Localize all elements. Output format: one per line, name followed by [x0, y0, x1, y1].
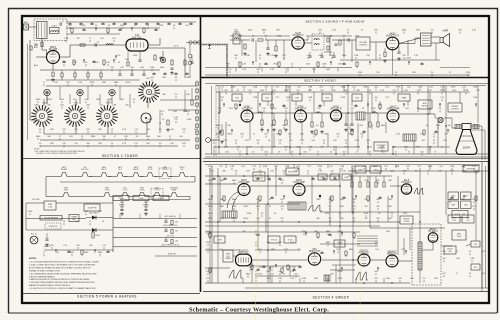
power component drops: [55, 250, 57, 253]
svg-text:1.2M: 1.2M: [450, 166, 455, 168]
svg-text:5%: 5%: [297, 90, 300, 92]
svg-text:+250 V AUDIO B+: +250 V AUDIO B+: [162, 224, 178, 227]
svg-text:.01: .01: [369, 90, 372, 92]
svg-text:.01: .01: [111, 129, 114, 131]
tube V201 6AU6 sound IF: [292, 32, 304, 49]
svg-text:L7: L7: [379, 55, 381, 57]
HV cage dashed box: [412, 224, 441, 285]
tuner upper component drops: [68, 24, 71, 25]
svg-text:560: 560: [234, 30, 237, 32]
svg-text:560: 560: [47, 105, 50, 107]
svg-text:SECTION 3 VIDEO: SECTION 3 VIDEO: [304, 79, 336, 83]
svg-text:.001: .001: [406, 166, 410, 168]
svg-text:.002: .002: [224, 90, 228, 92]
svg-text:1000: 1000: [248, 30, 252, 32]
svg-text:R461: R461: [451, 196, 455, 198]
svg-text:.001: .001: [280, 206, 284, 208]
svg-text:.05: .05: [261, 125, 264, 127]
svg-text:.01: .01: [111, 143, 114, 145]
AGC dot junction: [239, 104, 241, 106]
svg-text:L7: L7: [278, 152, 280, 154]
svg-text:47: 47: [361, 30, 363, 32]
svg-text:C12: C12: [252, 166, 256, 168]
svg-text:.005: .005: [359, 125, 363, 127]
svg-text:SYNC AMP: SYNC AMP: [293, 181, 305, 184]
wire top power: [26, 202, 44, 204]
svg-text:.047: .047: [428, 90, 432, 92]
height control box: [400, 216, 413, 224]
svg-text:.001: .001: [342, 152, 346, 154]
svg-text:.001: .001: [280, 180, 284, 182]
sound bottom bus drops: [235, 68, 237, 72]
svg-text:470K: 470K: [120, 25, 125, 27]
focus box: [471, 264, 480, 270]
svg-text:.005: .005: [108, 99, 112, 101]
svg-text:470K: 470K: [159, 25, 164, 27]
svg-text:1.2M: 1.2M: [112, 105, 117, 107]
svg-text:.01: .01: [63, 221, 66, 223]
waveform vertical sweep: [229, 270, 243, 278]
svg-text:L1 ANT: L1 ANT: [51, 25, 58, 28]
svg-text:.01: .01: [282, 267, 285, 269]
svg-text:470K: 470K: [325, 213, 330, 215]
svg-text:5%: 5%: [274, 213, 277, 215]
bottom rule under caption: [8, 312, 497, 314]
svg-text:1.2M: 1.2M: [308, 87, 313, 89]
phase det winding: [288, 202, 306, 210]
svg-text:VIDEO AMP: VIDEO AMP: [387, 107, 400, 110]
svg-text:1.2M: 1.2M: [418, 87, 423, 89]
svg-text:220: 220: [364, 180, 367, 182]
tuner mid component cluster: [62, 62, 65, 63]
svg-text:.05: .05: [431, 30, 434, 32]
svg-text:.001: .001: [264, 152, 268, 154]
svg-text:21EP4: 21EP4: [463, 147, 471, 150]
svg-text:2.2K: 2.2K: [290, 278, 295, 280]
tube V406 horizontal oscillator: [358, 250, 370, 266]
switch wafer S1A: [31, 105, 53, 127]
svg-text:R463: R463: [451, 205, 455, 207]
svg-text:2.2K: 2.2K: [78, 82, 83, 84]
tuner below mixer cluster: [115, 56, 117, 59]
svg-text:C12: C12: [275, 97, 279, 99]
svg-text:1.2M: 1.2M: [395, 166, 400, 168]
svg-text:C12: C12: [307, 166, 311, 168]
svg-text:PL1 47: PL1 47: [31, 234, 38, 236]
svg-text:2W: 2W: [77, 38, 80, 40]
svg-text:SECTION 5 POWER & HEATERS: SECTION 5 POWER & HEATERS: [77, 295, 137, 299]
svg-text:R302: R302: [258, 274, 263, 276]
svg-text:RF AMP: RF AMP: [49, 48, 58, 51]
svg-text:.05: .05: [371, 125, 374, 127]
svg-text:HOR OSC: HOR OSC: [359, 252, 370, 254]
dashed box around row2 filament: [151, 189, 163, 199]
svg-text:220: 220: [74, 143, 77, 145]
wafer interconnect wires: [43, 99, 45, 106]
sweep long vertical wires: [209, 168, 211, 283]
oscillator network small parts: [127, 62, 129, 66]
svg-text:.05: .05: [378, 213, 381, 215]
ion trap box: [471, 241, 480, 247]
svg-text:4.7K: 4.7K: [270, 69, 275, 71]
quad coil T202 (dashed): [312, 34, 324, 50]
volume control box: [356, 37, 370, 50]
section 3 box top line: [205, 83, 489, 85]
antenna matching assembly (dashed enclosure): [34, 19, 67, 41]
svg-text:AGC: AGC: [34, 64, 39, 67]
svg-text:470K: 470K: [90, 82, 95, 84]
svg-text:470K: 470K: [148, 119, 153, 121]
vertical riser V1 cathode: [52, 64, 54, 71]
svg-text:560: 560: [447, 125, 450, 127]
video junction dots: [218, 112, 220, 114]
svg-text:5%: 5%: [133, 99, 136, 101]
svg-text:100: 100: [175, 231, 178, 233]
section 1 bottom line: [22, 158, 200, 160]
svg-text:.05: .05: [229, 69, 232, 71]
on-off switch box: [84, 204, 100, 211]
sweep long bus wires: [205, 175, 340, 177]
svg-text:47: 47: [253, 134, 255, 136]
svg-text:HOR AFC: HOR AFC: [401, 181, 412, 184]
svg-text:6800: 6800: [36, 99, 40, 101]
wiring video IF chain: [253, 112, 295, 114]
misc small caps sound: [308, 56, 311, 57]
video component row lower: [218, 132, 221, 133]
svg-text:120: 120: [439, 166, 442, 168]
svg-text:C117: C117: [245, 140, 250, 142]
svg-text:S1A: S1A: [42, 102, 46, 105]
svg-text:C12: C12: [385, 87, 389, 89]
wires bottom sweep: [233, 255, 236, 257]
section 3 left dashed edge: [215, 85, 217, 156]
coupling capacitor C4: [95, 43, 96, 46]
svg-text:120: 120: [352, 87, 355, 89]
svg-text:6800: 6800: [114, 82, 118, 84]
svg-text:6800: 6800: [98, 252, 102, 254]
svg-text:SECTION 2 SOUND I-F AND AUDIO: SECTION 2 SOUND I-F AND AUDIO: [305, 20, 365, 24]
contrast control box: [374, 142, 388, 151]
tube V405 vertical output: [308, 249, 321, 265]
svg-text:C117: C117: [472, 206, 477, 208]
svg-text:1.2M: 1.2M: [308, 97, 313, 99]
sound top wire: [230, 35, 290, 37]
svg-text:T304: T304: [325, 97, 329, 99]
hor freq control box: [253, 172, 265, 181]
channel strip bus upper: [40, 69, 160, 71]
tuner upper wiring rows: [66, 21, 196, 23]
svg-text:.001: .001: [429, 87, 433, 89]
svg-text:5%: 5%: [175, 77, 178, 79]
svg-text:120: 120: [62, 129, 65, 131]
svg-text:470K: 470K: [231, 87, 236, 89]
de-emphasis network: [334, 44, 337, 45]
arc wires left of sync sep: [227, 192, 238, 208]
svg-text:.05: .05: [159, 129, 162, 131]
section 5 bottom line: [22, 293, 200, 295]
svg-text:560: 560: [130, 67, 133, 69]
svg-text:6800: 6800: [216, 125, 220, 127]
sweep junction dots: [217, 175, 219, 177]
tube V302 6CB6 2nd video IF: [295, 106, 307, 122]
svg-text:FUSE: FUSE: [48, 204, 52, 206]
svg-text:C464: C464: [464, 205, 468, 207]
AFC network box cluster: [448, 192, 459, 200]
svg-text:.01: .01: [63, 62, 66, 64]
svg-text:AT LEFT REALIGN OPERATIONS, AN: AT LEFT REALIGN OPERATIONS, AND THE CONT…: [29, 266, 91, 269]
tube V1 6BC5 RF amp: [47, 47, 60, 64]
svg-text:5%: 5%: [391, 213, 394, 215]
distribution risers: [119, 214, 121, 219]
antenna input terminal board: [24, 24, 29, 30]
svg-text:1.2M: 1.2M: [73, 105, 78, 107]
svg-text:R302: R302: [274, 64, 279, 66]
svg-text:5%: 5%: [439, 108, 442, 110]
svg-text:C12: C12: [385, 97, 389, 99]
line cord interlock dashed box: [45, 223, 61, 229]
vertical oscillator transformer: [223, 250, 233, 262]
svg-text:C12: C12: [275, 87, 279, 89]
svg-text:T303: T303: [295, 97, 299, 99]
svg-text:.005: .005: [318, 30, 322, 32]
svg-text:.001: .001: [481, 251, 485, 253]
filter section top boxes: [113, 196, 129, 201]
svg-text:.01: .01: [259, 55, 262, 57]
svg-text:VERT OUT: VERT OUT: [309, 251, 321, 253]
svg-text:.001: .001: [84, 211, 88, 213]
svg-text:47: 47: [299, 69, 301, 71]
phase detector network: [351, 182, 353, 187]
svg-text:.002: .002: [240, 134, 244, 136]
svg-text:4.7K: 4.7K: [122, 143, 127, 145]
svg-text:C117: C117: [401, 249, 406, 251]
svg-text:C117: C117: [284, 108, 289, 110]
svg-text:6800: 6800: [91, 136, 95, 138]
heater rows connecting wires: [45, 177, 47, 197]
svg-text:C117: C117: [330, 55, 335, 57]
svg-text:NORMAL PICTURE CONTRAST LEVEL.: NORMAL PICTURE CONTRAST LEVEL.: [29, 269, 61, 272]
svg-text:T302: T302: [265, 97, 269, 99]
svg-text:.01: .01: [323, 140, 326, 142]
vert output transformer winding: [324, 275, 330, 281]
CRT picture tube 21EP4: [456, 124, 477, 155]
sound takeoff coil T201: [233, 34, 240, 44]
tube V404 vertical oscillator: [236, 250, 252, 265]
svg-text:.002: .002: [106, 62, 110, 64]
svg-text:1000: 1000: [160, 67, 164, 69]
thermal resistor box: [69, 215, 79, 222]
svg-text:.05: .05: [136, 136, 139, 138]
svg-text:.001: .001: [303, 152, 307, 154]
svg-text:470K: 470K: [28, 211, 33, 213]
svg-text:5%: 5%: [39, 143, 42, 145]
waveform AFC comparison: [414, 188, 424, 194]
svg-text:6800: 6800: [326, 242, 330, 244]
svg-text:.047: .047: [170, 143, 174, 145]
svg-text:L7: L7: [317, 152, 319, 154]
tuner bottom bus: [40, 139, 190, 141]
svg-text:5. USE EXACT REPLACEMENT VALUE: 5. USE EXACT REPLACEMENT VALUES FOR ALL …: [29, 281, 95, 284]
svg-text:5%: 5%: [118, 55, 121, 57]
svg-text:.047: .047: [170, 129, 174, 131]
svg-text:47: 47: [57, 252, 59, 254]
divider feedthrough terminal squares: [196, 82, 199, 85]
svg-text:.05: .05: [291, 64, 294, 66]
svg-text:.002: .002: [99, 105, 103, 107]
svg-text:120: 120: [462, 87, 465, 89]
svg-text:3. ALL CAPACITANCE VALUES IN M: 3. ALL CAPACITANCE VALUES IN MFD UNLESS …: [29, 272, 97, 275]
svg-text:560: 560: [312, 69, 315, 71]
svg-text:470K: 470K: [358, 72, 363, 74]
left edge wires: [29, 40, 31, 120]
svg-text:390: 390: [222, 171, 225, 173]
svg-text:390: 390: [316, 218, 319, 220]
svg-text:.001: .001: [241, 166, 245, 168]
svg-text:L7: L7: [89, 38, 91, 40]
transformer T404 flyback winding: [418, 242, 422, 270]
IF output line to section 3: [148, 47, 185, 49]
svg-text:.01: .01: [291, 152, 294, 154]
tube V401 sync separator: [238, 180, 250, 196]
svg-text:6800: 6800: [349, 249, 353, 251]
svg-text:.005: .005: [173, 111, 177, 113]
svg-text:47: 47: [269, 218, 271, 220]
sweep component row lower: [209, 268, 211, 272]
svg-text:470K: 470K: [150, 67, 155, 69]
feedthrough terminals to section 2: [189, 41, 192, 44]
switch wafer S1B: [64, 105, 86, 127]
svg-text:4. ARROWS INDICATE CLOCKWISE R: 4. ARROWS INDICATE CLOCKWISE ROTATION OF…: [29, 278, 90, 281]
svg-text:5%: 5%: [235, 171, 238, 173]
svg-text:470K: 470K: [81, 25, 86, 27]
capacitor C12: [183, 110, 186, 111]
svg-text:.001: .001: [420, 152, 424, 154]
svg-text:100: 100: [175, 222, 178, 224]
svg-text:C117: C117: [206, 278, 211, 280]
svg-text:47: 47: [73, 99, 75, 101]
svg-text:SYNC: SYNC: [64, 190, 69, 192]
wire antenna to balun: [29, 26, 35, 28]
junction dot on cable: [209, 44, 211, 46]
tuner vertical drops to wafers: [46, 94, 48, 104]
oscillator adjust trimmer row wires: [46, 96, 48, 104]
svg-text:560: 560: [282, 125, 285, 127]
svg-text:.002: .002: [405, 108, 409, 110]
svg-text:120: 120: [336, 134, 339, 136]
deflection yoke combs: [455, 125, 461, 129]
svg-text:.05: .05: [417, 90, 420, 92]
svg-text:1.2M: 1.2M: [340, 166, 345, 168]
svg-text:1000: 1000: [84, 252, 88, 254]
sweep vertical mesh wires: [211, 166, 213, 283]
svg-text:4.7K: 4.7K: [122, 129, 127, 131]
sweep extra component drops: [212, 179, 215, 180]
feedthrough terminals column: [188, 54, 192, 58]
svg-text:.01: .01: [362, 108, 365, 110]
svg-text:+250V: +250V: [405, 58, 412, 60]
svg-text:.05: .05: [134, 25, 137, 27]
svg-text:470K: 470K: [263, 166, 268, 168]
svg-text:C12: C12: [472, 166, 476, 168]
sweep component row upper: [211, 196, 213, 199]
svg-text:1ST VID IF: 1ST VID IF: [241, 108, 253, 110]
svg-text:.001: .001: [84, 99, 88, 101]
vert lin box: [284, 236, 296, 243]
sync transformer winding: [222, 211, 237, 218]
waveform horizontal sweep: [356, 272, 368, 280]
heater row 1 wire: [46, 176, 57, 178]
svg-text:.01: .01: [433, 140, 436, 142]
svg-text:560: 560: [157, 136, 160, 138]
svg-text:C12: C12: [220, 97, 224, 99]
svg-text:.05: .05: [261, 213, 264, 215]
svg-text:.01: .01: [469, 273, 472, 275]
svg-text:120: 120: [329, 166, 332, 168]
svg-text:COIL: COIL: [452, 220, 456, 222]
svg-text:C12: C12: [134, 129, 138, 131]
svg-text:6800: 6800: [402, 30, 406, 32]
svg-text:MARKED WITH AN ASTERISK FOR BE: MARKED WITH AN ASTERISK FOR BEST RESULTS…: [29, 284, 71, 287]
svg-text:5%: 5%: [345, 140, 348, 142]
svg-text:C12: C12: [417, 166, 421, 168]
svg-text:SYNC SEP: SYNC SEP: [238, 182, 250, 184]
pilot lamp PL501: [30, 236, 38, 244]
svg-text:HEIGHT: HEIGHT: [403, 219, 409, 221]
svg-text:C12: C12: [440, 87, 444, 89]
svg-text:6800: 6800: [232, 218, 236, 220]
svg-text:L7: L7: [356, 152, 358, 154]
svg-text:L7: L7: [43, 82, 45, 84]
svg-text:.002: .002: [60, 99, 64, 101]
tube V402 sync amplifier: [293, 180, 305, 196]
svg-text:1. DC VOLTAGES MEASURED FROM B: 1. DC VOLTAGES MEASURED FROM B- BUS TO C…: [29, 261, 99, 264]
svg-text:L7: L7: [43, 252, 45, 254]
video long vertical wires: [211, 86, 213, 154]
svg-text:L7: L7: [114, 136, 116, 138]
svg-text:.001: .001: [75, 221, 79, 223]
svg-text:120: 120: [297, 87, 300, 89]
svg-text:47: 47: [269, 180, 271, 182]
svg-text:C454: C454: [374, 169, 378, 171]
svg-text:220: 220: [364, 199, 367, 201]
video upper bus wire: [216, 85, 486, 87]
svg-text:.05: .05: [162, 119, 165, 121]
fold crease yellow line right: [360, 170, 362, 313]
svg-text:L7: L7: [347, 30, 349, 32]
svg-text:.05: .05: [81, 136, 84, 138]
svg-text:470K: 470K: [247, 213, 252, 215]
sound section bottom bus: [205, 74, 470, 76]
svg-text:1ST IF: 1ST IF: [147, 169, 152, 171]
svg-text:C117: C117: [206, 242, 211, 244]
divider below section 2: [201, 77, 490, 79]
svg-text:3RD VID IF: 3RD VID IF: [330, 108, 342, 110]
switch wafer S1D: [138, 81, 160, 103]
waveform sync pulses: [308, 205, 322, 211]
oscillator trimmer disc: [141, 113, 151, 123]
svg-text:+275 V B+: +275 V B+: [166, 235, 176, 237]
svg-text:VERT: VERT: [226, 254, 230, 256]
svg-text:TO IF: TO IF: [173, 46, 179, 48]
video detector crystal (circle-X): [438, 117, 443, 122]
circuit breaker box: [40, 216, 62, 221]
svg-text:560: 560: [376, 206, 379, 208]
svg-text:C462: C462: [464, 196, 468, 198]
svg-text:C12: C12: [440, 97, 444, 99]
svg-text:.001: .001: [481, 273, 485, 275]
svg-text:L7: L7: [89, 221, 91, 223]
svg-text:.001: .001: [442, 273, 446, 275]
